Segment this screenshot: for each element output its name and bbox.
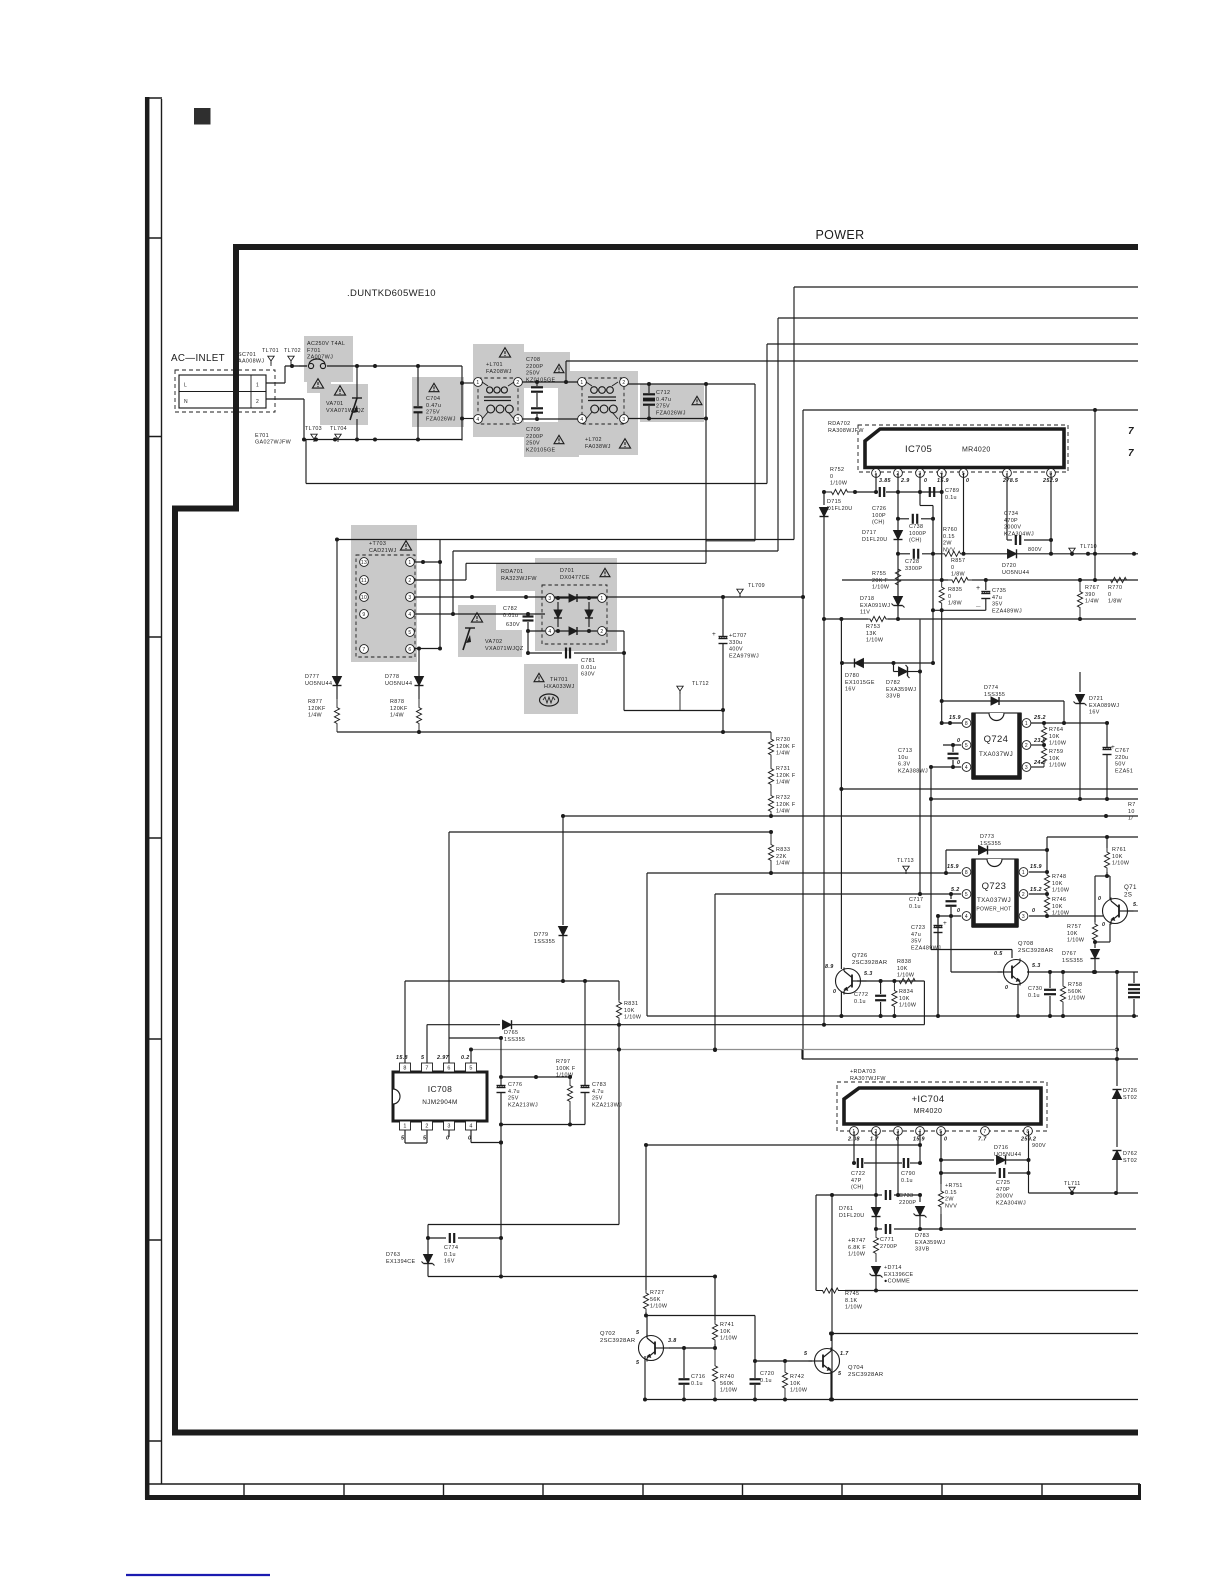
wire bus 564 — [466, 563, 706, 580]
wire riser 585 — [584, 981, 586, 1086]
svg-text:1/8W: 1/8W — [951, 572, 966, 578]
net label 7xx a — [1128, 426, 1134, 437]
diode D783 zener — [914, 1195, 946, 1253]
svg-text:C725: C725 — [996, 1180, 1010, 1186]
wire bus 732 — [337, 730, 771, 734]
svg-text:3: 3 — [447, 1124, 450, 1130]
shade F701 — [304, 336, 353, 393]
capacitor C722 — [851, 1158, 902, 1191]
test point TL704 — [330, 426, 347, 442]
svg-text:R759: R759 — [1049, 749, 1063, 755]
svg-text:0.1u: 0.1u — [945, 495, 957, 501]
capacitor C771 — [876, 1224, 1136, 1250]
svg-text:HXA033WJ: HXA033WJ — [544, 684, 575, 690]
shade VA702 — [458, 605, 522, 657]
ic IC705 — [858, 425, 1068, 472]
svg-text:R833: R833 — [776, 847, 790, 853]
label RDA703 — [850, 1069, 886, 1082]
svg-text:0.01u: 0.01u — [503, 613, 518, 619]
svg-text:C730: C730 — [1028, 986, 1042, 992]
wire bus 344 — [767, 344, 1138, 484]
wire Q704 emitter — [829, 1373, 833, 1402]
svg-text:C717: C717 — [909, 897, 923, 903]
diode D782 — [886, 663, 922, 700]
svg-text:AC—INLET: AC—INLET — [171, 353, 225, 364]
svg-text:KZA213WJ: KZA213WJ — [592, 1102, 622, 1108]
wire node 1077 — [501, 1075, 572, 1079]
svg-text:47u: 47u — [992, 595, 1002, 601]
svg-text:R834: R834 — [899, 989, 913, 995]
svg-text:10K: 10K — [720, 1329, 731, 1335]
choke L702 — [578, 378, 631, 450]
svg-text:35V: 35V — [911, 939, 922, 945]
wire ground 1399 — [645, 1399, 1138, 1401]
svg-text:R838: R838 — [897, 959, 911, 965]
svg-text:2200P: 2200P — [899, 1200, 916, 1206]
svg-text:25V: 25V — [592, 1096, 603, 1102]
wire bus 799 — [931, 798, 1138, 800]
wire bus 551 — [451, 551, 778, 616]
ic Q724 values — [949, 715, 1046, 766]
svg-text:0.1u: 0.1u — [1028, 993, 1040, 999]
svg-text:+RDA703: +RDA703 — [850, 1069, 876, 1075]
svg-text:C771: C771 — [880, 1237, 894, 1243]
svg-text:0: 0 — [833, 989, 836, 995]
svg-text:3: 3 — [622, 417, 625, 423]
svg-text:10K: 10K — [1049, 734, 1060, 740]
svg-text:ST02: ST02 — [1123, 1095, 1137, 1101]
svg-text:EXA091WJ: EXA091WJ — [860, 603, 890, 609]
svg-text:1/10W: 1/10W — [624, 1015, 642, 1021]
svg-text:1000P: 1000P — [909, 531, 926, 537]
svg-text:R770: R770 — [1108, 585, 1122, 591]
wire IC705 pin3 riser — [918, 473, 933, 506]
ic IC708 — [393, 1063, 487, 1130]
svg-text:C712: C712 — [656, 390, 670, 396]
wire Q723 pin5 — [715, 892, 961, 896]
wire E701 drop — [305, 440, 307, 484]
svg-text:+L701: +L701 — [486, 362, 503, 368]
svg-text:TL701: TL701 — [262, 348, 279, 354]
svg-text:Q724: Q724 — [984, 734, 1009, 745]
svg-text:1/10W: 1/10W — [556, 1073, 574, 1079]
svg-text:D717: D717 — [862, 530, 876, 536]
svg-text:IC708: IC708 — [428, 1084, 452, 1094]
wire Q723 pin1 — [1029, 870, 1049, 874]
svg-text:2S: 2S — [1124, 892, 1132, 899]
wire riser 933 — [931, 506, 935, 664]
svg-text:AC250V T4AL: AC250V T4AL — [307, 341, 345, 347]
svg-text:R878: R878 — [390, 699, 404, 705]
capacitor C734 — [1004, 511, 1053, 545]
diode D721 — [1074, 672, 1120, 801]
svg-text:470P: 470P — [996, 1187, 1010, 1193]
wire bus 1145 — [644, 1131, 922, 1147]
svg-text:22K: 22K — [776, 854, 787, 860]
svg-text:RDA701: RDA701 — [501, 569, 523, 575]
svg-text:11V: 11V — [860, 610, 870, 616]
wire bus 972 — [1027, 970, 1138, 974]
svg-text:D1FL20U: D1FL20U — [827, 506, 853, 512]
resistor R747 — [848, 1229, 879, 1262]
svg-text:2000V: 2000V — [996, 1194, 1013, 1200]
net 800V — [1028, 547, 1042, 553]
svg-text:FA038WJ: FA038WJ — [585, 444, 611, 450]
svg-text:4: 4 — [469, 1124, 472, 1130]
svg-text:IC705: IC705 — [905, 444, 932, 455]
svg-text:7: 7 — [1128, 448, 1134, 459]
svg-text:2200P: 2200P — [526, 364, 543, 370]
svg-text:DX0477CE: DX0477CE — [560, 575, 590, 581]
test point TL710 — [1069, 544, 1097, 556]
wire bus 318 — [778, 318, 1138, 551]
svg-text:1: 1 — [1022, 870, 1025, 876]
shade VA701 — [320, 384, 368, 425]
svg-text:RA307WJFW: RA307WJFW — [850, 1076, 886, 1082]
svg-text:2SC3928AR: 2SC3928AR — [848, 1372, 883, 1378]
svg-text:15.8: 15.8 — [396, 1055, 408, 1061]
capacitor C704 — [414, 364, 456, 440]
diode D716 — [941, 1145, 1031, 1165]
svg-text:1SS355: 1SS355 — [980, 841, 1001, 847]
wire node 981 — [405, 979, 619, 983]
resistor R727 — [643, 1145, 667, 1318]
svg-text:KZA213WJ: KZA213WJ — [508, 1102, 538, 1108]
svg-text:50V: 50V — [1115, 762, 1126, 768]
transistor Q708 — [994, 941, 1053, 991]
svg-text:C790: C790 — [901, 1171, 915, 1177]
svg-text:Q726: Q726 — [852, 953, 868, 959]
svg-text:0: 0 — [1108, 592, 1111, 598]
svg-text:1/10W: 1/10W — [845, 1305, 863, 1311]
svg-text:D720: D720 — [1002, 563, 1016, 569]
capacitor C767 — [1103, 723, 1134, 801]
wire bus 873 TL713 — [647, 871, 961, 875]
svg-text:390: 390 — [1085, 592, 1095, 598]
svg-text:7: 7 — [983, 1129, 986, 1135]
board name DUNTKD605WE10 — [347, 288, 436, 299]
wire riser 931 — [929, 767, 933, 950]
svg-text:1: 1 — [600, 596, 603, 602]
svg-text:250V: 250V — [526, 371, 540, 377]
svg-text:D765: D765 — [504, 1030, 518, 1036]
svg-text:8: 8 — [403, 1066, 406, 1072]
wire IC708 pin8 riser — [404, 981, 406, 1063]
svg-text:TL703: TL703 — [305, 426, 322, 432]
wire riser 832 — [830, 1193, 834, 1402]
svg-text:+T703: +T703 — [369, 541, 386, 547]
svg-text:4: 4 — [965, 914, 968, 920]
svg-text:2: 2 — [408, 578, 411, 584]
svg-text:C716: C716 — [691, 1374, 705, 1380]
wire riser 951 — [950, 916, 952, 972]
svg-text:1/10W: 1/10W — [872, 585, 890, 591]
resistor R797 — [556, 1059, 576, 1125]
wire IC704 pin5 riser — [939, 1131, 943, 1184]
svg-text:7: 7 — [425, 1066, 428, 1072]
svg-text:+: + — [943, 920, 947, 927]
wire AC N — [266, 399, 304, 440]
svg-text:C728: C728 — [905, 559, 919, 565]
svg-text:VXA071WJQZ: VXA071WJQZ — [485, 646, 524, 652]
wire bridge out2 — [607, 631, 723, 711]
wire Q724 pin3 — [1031, 766, 1044, 768]
resistor R752 — [822, 467, 855, 495]
page border bottom ruler — [145, 1484, 1141, 1498]
schematic thick border — [175, 247, 1138, 1433]
wire Q724 pin2 — [1031, 743, 1046, 747]
svg-text:2: 2 — [425, 1124, 428, 1130]
svg-text:250V: 250V — [526, 441, 540, 447]
svg-text:10: 10 — [1128, 809, 1135, 815]
svg-text:R7: R7 — [1128, 802, 1136, 808]
resistor R835 — [939, 580, 962, 701]
svg-text:D767: D767 — [1062, 951, 1076, 957]
capacitor C7xx clipped — [1128, 972, 1140, 1016]
svg-text:D762: D762 — [1123, 1151, 1137, 1157]
connector SC701 AC inlet — [175, 370, 275, 412]
ic IC705 pins — [872, 469, 1056, 478]
svg-text:0.1u: 0.1u — [760, 1378, 772, 1384]
wire Q726 emitter — [839, 992, 843, 1018]
svg-text:C782: C782 — [503, 606, 517, 612]
wire node 1315 — [646, 1315, 755, 1317]
svg-text:C781: C781 — [581, 658, 595, 664]
svg-text:EZA979WJ: EZA979WJ — [729, 653, 759, 659]
diode D779 — [534, 816, 568, 983]
resistor R757 — [1067, 876, 1098, 944]
svg-text:0.1u: 0.1u — [691, 1381, 703, 1387]
svg-text:TXA037WJ: TXA037WJ — [979, 751, 1013, 758]
wire Q726 collector — [840, 789, 842, 969]
wire node E701 return — [306, 483, 767, 485]
svg-text:0.47u: 0.47u — [426, 403, 441, 409]
svg-text:13K: 13K — [866, 631, 877, 637]
svg-text:0: 0 — [924, 478, 927, 484]
wire bus 553 TL710 — [898, 551, 1138, 556]
svg-text:VXA071WJQZ: VXA071WJQZ — [326, 408, 365, 414]
resistor R748 — [1044, 872, 1069, 896]
svg-text:SC701: SC701 — [238, 352, 256, 358]
svg-text:1/4W: 1/4W — [776, 861, 791, 867]
svg-text:9: 9 — [362, 612, 365, 618]
svg-text:TL713: TL713 — [897, 858, 914, 864]
wire Q717 base — [1127, 910, 1138, 912]
svg-text:1SS355: 1SS355 — [504, 1037, 525, 1043]
wire T703 pin1 — [415, 560, 442, 564]
svg-text:2: 2 — [516, 380, 519, 386]
varistor VA702 — [463, 613, 524, 652]
capacitor C713 — [898, 743, 961, 774]
wire Q723 pin3 out — [1047, 915, 1103, 917]
ic Q724 — [962, 713, 1031, 779]
capacitor C738 — [898, 514, 935, 544]
shade T703 — [351, 525, 417, 662]
svg-text:1.7: 1.7 — [840, 1351, 849, 1357]
capacitor C708 — [522, 357, 578, 421]
wire bridge in4 — [526, 629, 545, 633]
wire Q723 pin4 — [936, 914, 961, 918]
wire riser 1095 — [1094, 410, 1096, 580]
svg-text:8: 8 — [965, 721, 968, 727]
svg-text:2SC3928AR: 2SC3928AR — [600, 1338, 635, 1344]
shade C704 — [412, 377, 464, 427]
label E701 — [255, 433, 292, 446]
svg-text:1/10W: 1/10W — [1052, 888, 1070, 894]
svg-text:C723: C723 — [911, 925, 925, 931]
svg-text:R731: R731 — [776, 766, 790, 772]
svg-text:L: L — [184, 383, 187, 389]
svg-text:0: 0 — [1005, 985, 1008, 991]
svg-text:EZA51: EZA51 — [1115, 768, 1133, 774]
svg-text:C713: C713 — [898, 748, 912, 754]
resistor R746 — [1044, 894, 1069, 917]
svg-text:4.7u: 4.7u — [508, 1089, 520, 1095]
svg-text:10K: 10K — [1049, 756, 1060, 762]
wire bus 1290 — [845, 1290, 1138, 1292]
shade D701 — [535, 558, 617, 651]
wire bus 361 — [564, 361, 1138, 384]
diode D773 — [946, 834, 1049, 873]
resistor R857 — [951, 558, 966, 578]
diode D762 — [1113, 1151, 1138, 1194]
wire riser 938 — [936, 916, 940, 1018]
svg-text:900V: 900V — [1032, 1143, 1046, 1149]
svg-text:Q704: Q704 — [848, 1365, 864, 1371]
svg-text:MR4020: MR4020 — [962, 447, 991, 454]
wire IC704 pin1 riser — [853, 1131, 855, 1163]
svg-text:R831: R831 — [624, 1001, 638, 1007]
svg-text:2700P: 2700P — [880, 1244, 897, 1250]
wire IC705 pin1 — [853, 473, 878, 494]
svg-text:1/: 1/ — [1128, 816, 1133, 822]
svg-text:C720: C720 — [760, 1371, 774, 1377]
svg-text:VA701: VA701 — [326, 401, 344, 407]
wire bus 789 — [841, 788, 1138, 790]
wire riser 440 — [439, 540, 441, 649]
wire bus 1333 — [831, 1333, 1138, 1335]
transistor Q726 — [825, 953, 887, 995]
svg-text:0: 0 — [957, 908, 960, 914]
svg-text:1/10W: 1/10W — [899, 1003, 917, 1009]
svg-text:4.7u: 4.7u — [592, 1089, 604, 1095]
capacitor C789 — [930, 487, 959, 501]
wire bus 816 — [561, 814, 1138, 818]
test point TL709 — [737, 583, 765, 597]
resistor R741 — [712, 1277, 737, 1349]
svg-text:C733: C733 — [899, 1193, 913, 1199]
svg-text:2: 2 — [1025, 743, 1028, 749]
svg-text:1/4W: 1/4W — [390, 713, 405, 719]
svg-text:1/10W: 1/10W — [650, 1304, 668, 1310]
svg-text:C704: C704 — [426, 396, 440, 402]
svg-text:15.9: 15.9 — [949, 715, 961, 721]
resistor R770 — [1106, 577, 1131, 604]
svg-text:278.5: 278.5 — [1002, 478, 1019, 484]
svg-text:TL712: TL712 — [692, 681, 709, 687]
svg-text:120KF: 120KF — [390, 706, 408, 712]
svg-text:TXA037WJ: TXA037WJ — [977, 897, 1011, 904]
diode D761 — [839, 1195, 881, 1231]
svg-text:.DUNTKD605WE10: .DUNTKD605WE10 — [347, 288, 436, 299]
svg-text:C776: C776 — [508, 1082, 522, 1088]
wire L702-2 drop — [706, 384, 755, 541]
resistor R878 — [390, 699, 422, 732]
svg-text:R760: R760 — [943, 527, 957, 533]
capacitor C717 — [909, 894, 957, 918]
svg-text:7.7: 7.7 — [978, 1137, 987, 1143]
svg-text:330u: 330u — [729, 640, 742, 646]
svg-text:1/10W: 1/10W — [848, 1252, 866, 1258]
wire riser 619 low — [618, 1050, 620, 1225]
wire node 1224 — [428, 1225, 619, 1277]
svg-text:1SS355: 1SS355 — [534, 939, 555, 945]
wire Q708 base — [951, 971, 1002, 973]
wire IC705 pin2 riser — [896, 473, 900, 621]
svg-text:KZA304WJ: KZA304WJ — [996, 1200, 1026, 1206]
capacitor C730 — [1028, 972, 1056, 1018]
svg-text:0: 0 — [1032, 908, 1035, 914]
svg-text:D721: D721 — [1089, 696, 1103, 702]
svg-text:3: 3 — [548, 596, 551, 602]
svg-text:1/10W: 1/10W — [897, 973, 915, 979]
svg-text:D761: D761 — [839, 1206, 853, 1212]
svg-text:R753: R753 — [866, 624, 880, 630]
resistor R760 label — [943, 527, 957, 553]
test point TL711 — [1064, 1181, 1081, 1195]
svg-text:R742: R742 — [790, 1374, 804, 1380]
svg-text:0: 0 — [830, 474, 833, 480]
wire bus 1229 — [0, 0, 1, 1]
svg-text:C735: C735 — [992, 588, 1006, 594]
svg-text:20K F: 20K F — [872, 578, 888, 584]
svg-text:+: + — [976, 585, 980, 592]
svg-text:10K: 10K — [1067, 931, 1078, 937]
svg-text:NVV: NVV — [943, 547, 955, 553]
capacitor C712 — [628, 382, 755, 421]
svg-text:400V: 400V — [729, 647, 743, 653]
test point TL701 — [262, 348, 279, 364]
svg-text:10u: 10u — [898, 755, 908, 761]
svg-text:TL709: TL709 — [748, 583, 765, 589]
wire node 1124 — [501, 1123, 585, 1127]
resistor R767 — [1077, 580, 1099, 619]
ic IC704 — [837, 1082, 1047, 1131]
svg-text:630V: 630V — [581, 672, 595, 678]
svg-text:2: 2 — [1022, 892, 1025, 898]
wire IC708 pin7 riser — [426, 1025, 428, 1064]
svg-text:2SC3928AR: 2SC3928AR — [1018, 948, 1053, 954]
svg-text:VA702: VA702 — [485, 639, 503, 645]
svg-text:Q71: Q71 — [1124, 884, 1137, 891]
svg-text:0: 0 — [944, 1137, 947, 1143]
svg-text:C767: C767 — [1115, 748, 1129, 754]
svg-text:1/4W: 1/4W — [776, 780, 791, 786]
svg-text:D779: D779 — [534, 932, 548, 938]
capacitor C726 — [872, 487, 942, 526]
svg-text:1/10W: 1/10W — [720, 1388, 738, 1394]
shade RDA701 — [496, 563, 544, 591]
svg-text:3: 3 — [516, 417, 519, 423]
svg-text:1/10W: 1/10W — [720, 1336, 738, 1342]
wire T703 pin4 — [415, 612, 545, 616]
svg-text:R740: R740 — [720, 1374, 734, 1380]
svg-text:1/10W: 1/10W — [1068, 996, 1086, 1002]
svg-text:25.2: 25.2 — [1033, 715, 1046, 721]
svg-text:8.9: 8.9 — [825, 964, 834, 970]
svg-text:1: 1 — [580, 380, 583, 386]
svg-text:15.9: 15.9 — [937, 478, 949, 484]
